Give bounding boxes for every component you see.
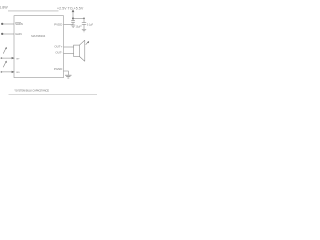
capacitor C2 0.1uF	[82, 18, 86, 29]
wire INN	[1, 71, 12, 73]
svg-text:*SYSTEM BULK CAPACITANCE: *SYSTEM BULK CAPACITANCE	[14, 88, 49, 92]
svg-text:OUT+: OUT+	[54, 44, 62, 48]
wire SHDN	[3, 23, 15, 25]
speaker arrow	[86, 41, 89, 45]
wire OUT+	[64, 46, 74, 48]
node INP terminal	[1, 57, 3, 59]
svg-text:+2.5V TO +5.5V: +2.5V TO +5.5V	[57, 7, 84, 11]
footer rule	[9, 93, 98, 95]
svg-text:GAIN: GAIN	[15, 32, 21, 36]
ground under C2	[82, 30, 86, 32]
ground under C1	[71, 25, 75, 27]
arrowhead INN into box	[12, 71, 15, 73]
speaker LS1	[74, 40, 85, 61]
svg-text:1.8W: 1.8W	[0, 5, 8, 9]
arrowhead INP into box	[12, 57, 15, 59]
node junction supply	[72, 17, 74, 19]
svg-text:10µF*: 10µF*	[76, 26, 82, 28]
wire INP	[1, 57, 12, 59]
wire OUT-	[64, 53, 74, 55]
wire PGND	[64, 71, 69, 75]
capacitor C1 10uF	[71, 21, 75, 25]
svg-text:PGND: PGND	[54, 67, 63, 71]
ground PGND	[65, 75, 71, 78]
header rule	[8, 10, 59, 12]
node INN terminal	[1, 71, 3, 73]
svg-text:SHDN: SHDN	[15, 22, 23, 26]
input arrow 2	[3, 61, 7, 68]
svg-text:PVDD: PVDD	[54, 23, 63, 27]
node junction rail end	[83, 17, 85, 19]
node SHDN terminal	[1, 23, 3, 25]
svg-text:0.1µF: 0.1µF	[87, 23, 94, 26]
supply arrow	[72, 9, 75, 12]
wire GAIN	[3, 33, 15, 35]
svg-text:OUT-: OUT-	[55, 51, 62, 55]
node GAIN terminal	[1, 33, 3, 35]
wire PVDD pin	[64, 24, 74, 26]
wire supply rail	[73, 17, 84, 19]
svg-text:MAX98304: MAX98304	[31, 34, 45, 38]
op-amp U1 MAX98304 box	[14, 16, 64, 78]
wire supply vertical	[72, 12, 74, 21]
input arrow 1	[3, 47, 7, 54]
